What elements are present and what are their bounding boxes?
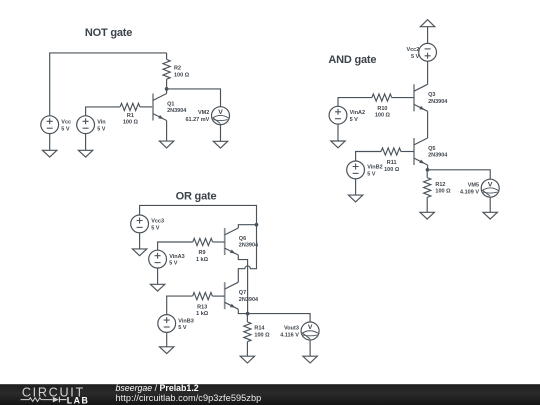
svg-text:5 V: 5 V [411,54,420,60]
voltmeter VM2 [185,107,229,125]
ground GND below Vcc [43,150,57,157]
wire Q3 emitter to Q5 collector [427,111,429,138]
ground GND below VinA3 [150,284,164,291]
svg-text:R13: R13 [197,304,207,310]
wire VM5 to ground [489,197,491,212]
svg-text:100 Ω: 100 Ω [384,167,400,173]
voltage source VinB2 [347,161,383,179]
svg-text:R11: R11 [387,160,397,166]
CircuitLab logo [21,385,90,405]
svg-text:Vcc2: Vcc2 [406,47,419,53]
resistor R13 [193,293,225,318]
voltmeter VM5 [460,179,499,197]
wire VM2 to ground [220,125,222,142]
svg-text:100 Ω: 100 Ω [375,113,391,119]
voltage source Vcc [41,116,71,134]
resistor R11 [381,148,414,173]
wire VinA2 to ground [337,124,339,141]
svg-text:R14: R14 [254,326,265,332]
wire Q7 collector to Vcc rail (hops over Q6 emitter wire) [238,225,256,283]
svg-text:5 V: 5 V [178,325,187,331]
svg-text:100 Ω: 100 Ω [123,120,139,126]
svg-text:R1: R1 [127,113,134,119]
transistor Q6 (NPN 2N3904) [225,228,259,255]
svg-text:5 V: 5 V [169,261,178,267]
ground GND below VinB3 [160,347,174,354]
svg-text:LAB: LAB [67,395,90,405]
svg-text:R12: R12 [435,182,445,188]
svg-text:VinA2: VinA2 [350,110,366,116]
wire node to VM5 [428,170,491,179]
svg-text:100 Ω: 100 Ω [174,72,190,78]
wire Vout3 to ground [309,340,311,356]
svg-text:4.109 V: 4.109 V [460,190,479,196]
svg-text:2N3904: 2N3904 [167,108,187,114]
wire VinB2 to ground [355,179,357,195]
svg-text:R10: R10 [377,106,387,112]
transistor Q5 (NPN 2N3904) [414,138,448,165]
voltage source VinA2 [329,106,365,124]
resistor R14 [244,314,270,357]
svg-text:http://circuitlab.com/c9p3zfe5: http://circuitlab.com/c9p3zfe595zbp [116,393,262,403]
transistor Q1 (NPN 2N3904) [153,94,187,121]
svg-text:OR gate: OR gate [176,191,217,203]
voltage source Vcc3 [131,215,164,233]
svg-text:2N3904: 2N3904 [239,297,259,303]
svg-text:V: V [218,109,223,116]
wire Vin up to R1 [86,107,120,116]
svg-text:V: V [488,181,493,188]
svg-text:Q5: Q5 [428,146,435,152]
svg-text:5 V: 5 V [61,126,70,132]
wire node to Vout3 [248,314,311,322]
ground GND above Vcc2 (pointing up) [420,20,434,27]
wire Vcc2 to Q3 collector [427,61,429,84]
ground GND below VinB2 [348,195,362,202]
svg-text:Vin: Vin [97,120,106,126]
svg-text:Vcc: Vcc [61,120,71,126]
transistor Q3 (NPN 2N3904) [414,84,448,111]
ground GND below R12 [420,212,434,219]
wire Q6 collector to node [238,225,256,228]
wire Q6 emitter down and over [238,255,247,314]
ground GND below Vin [78,150,92,157]
transistor Q7 (NPN 2N3904) [225,282,259,309]
footer bar [0,384,540,405]
wire Vcc to ground [49,134,51,151]
svg-text:5 V: 5 V [97,126,106,132]
wire Q5 emitter to output node [427,165,429,170]
node collector node of Q1 [165,87,169,91]
svg-text:bseergae / Prelab1.2: bseergae / Prelab1.2 [116,383,199,393]
svg-text:100 Ω: 100 Ω [254,333,270,339]
wire Q7 emitter to output node [238,309,247,313]
ground GND below Vcc3 [132,249,146,256]
wire VinB2 up to R11 [356,152,382,162]
ground GND below VM5 [483,212,497,219]
svg-text:5 V: 5 V [151,226,160,232]
svg-text:100 Ω: 100 Ω [435,189,451,195]
ground GND below VM2 [213,141,227,148]
wire VinA3 up to R9 [158,242,193,250]
voltmeter Vout3 [280,322,319,340]
resistor R1 [120,103,153,125]
wire R2 bottom to Q1 collector [166,89,168,94]
ground GND below R14 [240,356,254,363]
resistor R2 [163,53,190,89]
node AND output node [426,168,430,172]
svg-text:4.116 V: 4.116 V [280,332,299,338]
voltage source VinA3 [149,250,185,268]
wire Vcc to top rail [50,53,167,116]
voltage source Vin [77,116,107,134]
svg-text:2N3904: 2N3904 [428,99,448,105]
svg-text:R9: R9 [198,250,205,256]
ground GND below VinA2 [331,141,345,148]
svg-text:5 V: 5 V [367,172,376,178]
wire Q1 emitter to ground [166,121,168,142]
svg-text:Vout3: Vout3 [284,325,299,331]
svg-text:Q1: Q1 [167,101,174,107]
wire VinB3 up to R13 [167,296,193,315]
svg-text:VM2: VM2 [198,110,209,116]
voltage source VinB3 [158,315,194,333]
node OR output node [246,312,250,316]
voltage source Vcc2 [406,43,436,61]
wire VinA2 up to R10 [338,98,372,107]
svg-text:61.27 mV: 61.27 mV [185,117,209,123]
svg-text:VinA3: VinA3 [169,254,185,260]
svg-text:5 V: 5 V [350,117,359,123]
ground GND below Vout3 [303,356,317,363]
wire node to VM2 [167,89,221,107]
resistor R12 [424,170,452,213]
svg-text:1 kΩ: 1 kΩ [196,257,209,263]
svg-text:R2: R2 [174,66,181,72]
svg-text:2N3904: 2N3904 [428,153,448,159]
svg-text:Q3: Q3 [428,92,435,98]
svg-text:Q7: Q7 [239,290,246,296]
wire VinB3 to ground [166,332,168,346]
wire VinA3 to ground [157,268,159,284]
wire ground to Vcc2 [427,27,429,44]
svg-text:1 kΩ: 1 kΩ [196,311,209,317]
node Q6 collector node [255,223,259,227]
svg-text:Q6: Q6 [239,236,246,242]
wire Vcc3 to top rail [140,205,257,224]
svg-text:VM5: VM5 [468,183,479,189]
wire Vcc3 to ground [139,233,141,249]
ground GND below Q1 [159,141,173,148]
resistor R10 [372,94,414,119]
svg-text:NOT gate: NOT gate [85,27,132,39]
svg-text:VinB2: VinB2 [367,165,383,171]
resistor R9 [193,238,225,263]
svg-text:Vcc3: Vcc3 [151,219,164,225]
svg-text:VinB3: VinB3 [178,318,194,324]
svg-text:V: V [308,324,313,331]
wire Vin to ground [85,134,87,151]
svg-text:AND gate: AND gate [328,54,376,66]
